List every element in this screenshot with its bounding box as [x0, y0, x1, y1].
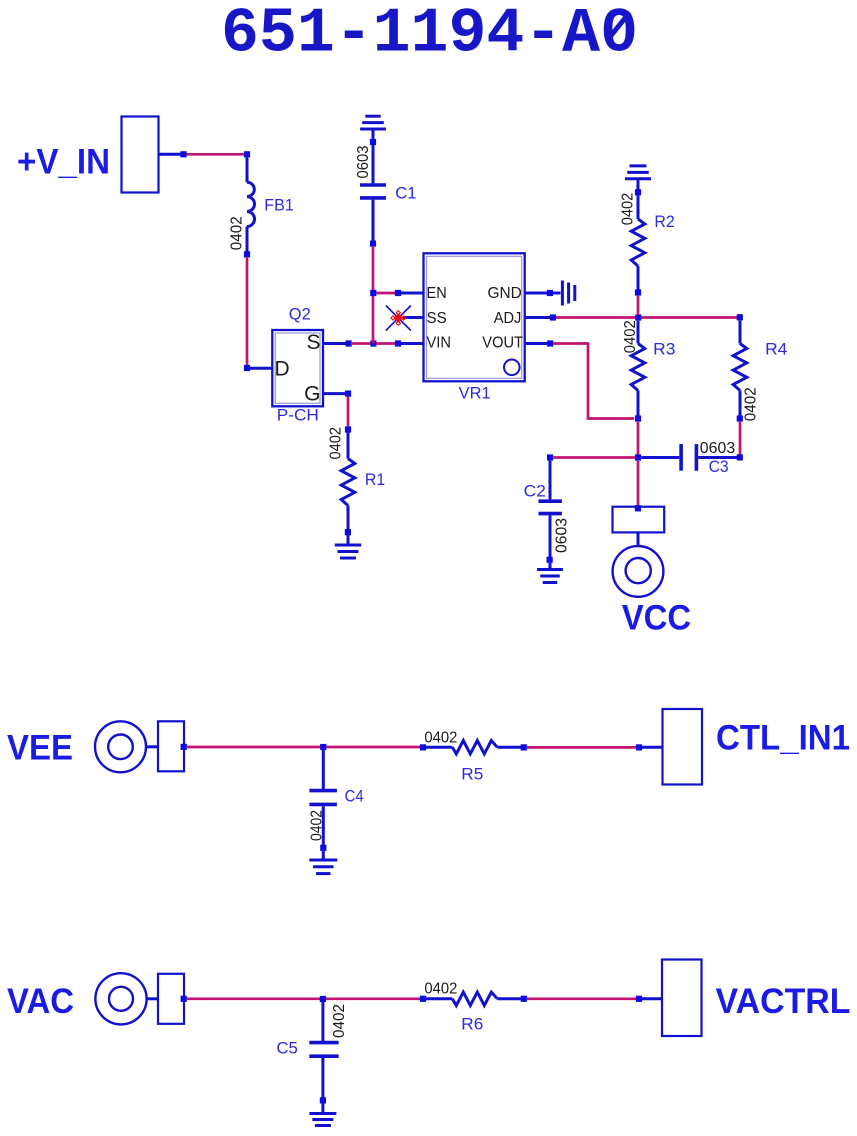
svg-text:C4: C4 [345, 786, 364, 805]
svg-text:R2: R2 [654, 212, 674, 231]
svg-text:VCC: VCC [622, 599, 692, 638]
svg-text:VR1: VR1 [459, 383, 491, 402]
svg-text:VIN: VIN [427, 335, 452, 352]
svg-text:0402: 0402 [622, 320, 639, 353]
svg-text:0402: 0402 [620, 193, 637, 226]
svg-text:0402: 0402 [742, 387, 759, 421]
svg-text:651-1194-A0: 651-1194-A0 [221, 0, 638, 70]
svg-text:VEE: VEE [7, 729, 73, 768]
svg-text:0402: 0402 [424, 981, 457, 998]
svg-text:0402: 0402 [424, 730, 457, 747]
svg-text:0402: 0402 [229, 216, 246, 250]
svg-text:0402: 0402 [328, 427, 345, 460]
svg-text:0402: 0402 [309, 810, 326, 841]
svg-text:D: D [275, 357, 290, 380]
svg-text:G: G [304, 382, 320, 405]
svg-text:VAC: VAC [7, 982, 74, 1021]
svg-text:0603: 0603 [554, 518, 571, 553]
svg-text:EN: EN [427, 285, 447, 302]
svg-text:P-CH: P-CH [277, 406, 319, 425]
svg-text:CTL_IN1: CTL_IN1 [716, 719, 850, 758]
svg-text:R3: R3 [653, 339, 675, 358]
svg-text:0603: 0603 [355, 145, 372, 178]
svg-text:R6: R6 [461, 1015, 483, 1034]
svg-text:Q2: Q2 [289, 304, 311, 323]
svg-text:C3: C3 [709, 457, 729, 476]
svg-text:C1: C1 [395, 184, 416, 203]
svg-text:SS: SS [427, 310, 447, 327]
svg-text:VACTRL: VACTRL [716, 982, 851, 1021]
svg-text:0603: 0603 [700, 440, 736, 457]
svg-text:+V_IN: +V_IN [17, 142, 110, 181]
svg-text:ADJ: ADJ [494, 310, 522, 327]
svg-text:C5: C5 [276, 1039, 298, 1058]
svg-text:R4: R4 [765, 339, 787, 358]
svg-text:S: S [306, 331, 320, 354]
svg-text:0402: 0402 [331, 1004, 348, 1038]
svg-text:R1: R1 [365, 470, 385, 489]
svg-text:C2: C2 [524, 481, 546, 500]
svg-text:VOUT: VOUT [482, 335, 523, 352]
svg-text:GND: GND [488, 285, 522, 302]
svg-text:R5: R5 [461, 764, 483, 783]
svg-text:FB1: FB1 [264, 195, 294, 214]
